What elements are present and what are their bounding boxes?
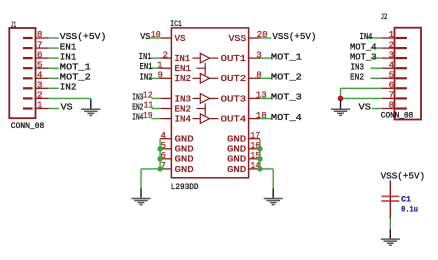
pin J1.7 — [35, 39, 49, 50]
wire net IN2 to IC1.9 — [149, 77, 160, 79]
ground symbol at J1.2 — [81, 99, 100, 115]
pin J2.5 — [382, 70, 395, 81]
label IC1 refdes — [170, 20, 182, 29]
svg-text:MOT_1: MOT_1 — [271, 51, 303, 62]
wire net IN3 to IC1.12 — [152, 97, 161, 99]
node label VS — [140, 31, 150, 42]
node label IN3 — [351, 61, 365, 72]
wire net MOT_4 to IC1.18 — [260, 118, 271, 120]
ground symbol below IC1 right — [264, 188, 283, 204]
node label IN4 — [132, 112, 143, 123]
svg-text:VS: VS — [61, 102, 74, 113]
pin J2.4 — [382, 59, 395, 70]
svg-text:VSS(+5V): VSS(+5V) — [272, 31, 316, 42]
svg-text:IN4: IN4 — [132, 112, 143, 123]
node label VSS(+5V) — [272, 31, 316, 42]
pin J1.3 — [35, 80, 49, 91]
svg-text:IN2: IN2 — [60, 82, 77, 93]
svg-text:IN2: IN2 — [175, 73, 192, 84]
node label EN2 — [350, 72, 364, 83]
pin J2.3 — [382, 49, 395, 60]
node label IN2 — [140, 71, 153, 82]
wire J2.7 to ground — [341, 97, 382, 99]
wire GND bus left of IC1 — [141, 139, 160, 189]
pin IC1.16 (GND) — [248, 140, 260, 151]
svg-text:0.1u: 0.1u — [401, 205, 418, 214]
wire net EN2 at J2.5 — [371, 77, 382, 79]
svg-text:IN2: IN2 — [140, 71, 153, 82]
node label MOT_3 — [350, 51, 377, 62]
pin IC1.5 (GND) — [160, 140, 172, 151]
wire GND bus right of IC1 — [260, 139, 273, 189]
wire C1 to ground — [389, 219, 391, 230]
wire net VS to IC1.10 — [150, 37, 160, 39]
label J1 refdes — [11, 21, 16, 30]
pin IC1.20 (VSS(+5V)) — [248, 29, 267, 40]
pin IC1.6 (GND) — [160, 150, 172, 161]
node label IN3 — [132, 91, 143, 102]
wire net IN1 to IC1.2 — [149, 57, 160, 59]
pin IC1.15 (GND) — [248, 150, 260, 161]
label J2 value CONN_08 — [381, 112, 414, 121]
svg-text:GND: GND — [227, 164, 247, 175]
svg-text:MOT_4: MOT_4 — [271, 112, 303, 123]
junction on GND bus right row 12 — [257, 156, 262, 161]
pin IC1.17 (GND) — [248, 130, 260, 141]
pin J2.8 — [382, 100, 395, 111]
node label MOT_2 — [271, 72, 302, 83]
enable line EN1 inside IC1 — [197, 63, 206, 75]
label IC1 value L293DD — [171, 183, 199, 192]
IC1 internal pin names left — [175, 33, 195, 175]
enable line EN2 inside IC1 — [197, 103, 206, 115]
capacitor C1 — [381, 196, 399, 218]
connector J2 (CONN_08) — [395, 28, 422, 120]
node label VSS(+5V) at C1 — [381, 171, 426, 182]
buffer triangle 2 inside IC1 — [193, 74, 219, 84]
svg-text:IN4: IN4 — [175, 114, 192, 125]
pin IC1.3 (MOT_1) — [248, 49, 262, 60]
wire net IN3 at J2.4 — [371, 67, 382, 69]
node label EN1 — [140, 61, 153, 72]
wire net VS at J1.1 — [49, 108, 59, 110]
svg-text:VS: VS — [175, 33, 186, 44]
IC1 internal pin names right — [221, 33, 247, 175]
wire net IN1 at J1.6 — [49, 57, 59, 59]
svg-text:VS: VS — [140, 31, 150, 42]
junction on GND bus left row 11 — [157, 146, 162, 151]
pin J1.5 — [35, 59, 49, 70]
node label VS — [359, 102, 372, 113]
node label IN1 — [139, 51, 152, 62]
svg-text:OUT1: OUT1 — [221, 53, 247, 64]
wire VSS to C1 — [389, 181, 391, 197]
wire net MOT_3 to IC1.13 — [260, 97, 271, 99]
svg-text:19: 19 — [143, 110, 153, 121]
wire net MOT_4 at J2.2 — [371, 47, 382, 49]
node label VS — [61, 102, 74, 113]
ground symbol below IC1 left — [131, 188, 150, 204]
pin J2.2 — [382, 39, 395, 50]
pin IC1.18 (MOT_4) — [248, 110, 267, 121]
pin IC1.13 (MOT_3) — [248, 90, 267, 101]
svg-text:CONN_08: CONN_08 — [381, 112, 414, 121]
junction on GND bus right row 11 — [257, 146, 262, 151]
node label VSS(+5V) — [60, 31, 107, 42]
junction on GND bus left row 13 — [157, 166, 162, 171]
pin IC1.14 (GND) — [248, 160, 260, 171]
svg-text:CONN_08: CONN_08 — [11, 122, 45, 131]
node label MOT_4 — [350, 41, 377, 52]
svg-text:MOT_3: MOT_3 — [271, 92, 302, 103]
svg-text:OUT2: OUT2 — [221, 73, 247, 84]
ground symbol below C1 — [381, 229, 400, 245]
label C1 — [401, 196, 411, 205]
svg-text:C1: C1 — [401, 196, 411, 205]
node label MOT_3 — [271, 92, 302, 103]
IC1 L293DD body — [171, 28, 248, 178]
pin J1.2 — [35, 90, 49, 101]
node label IN4 — [360, 31, 373, 42]
svg-text:GND: GND — [175, 164, 195, 175]
pin IC1.12 (IN3) — [143, 90, 172, 101]
buffer triangle 3 inside IC1 — [193, 94, 219, 104]
pin IC1.9 (IN2) — [158, 70, 172, 81]
wire net MOT_2 at J1.4 — [49, 77, 59, 79]
svg-text:MOT_2: MOT_2 — [271, 72, 302, 83]
pin J1.1 — [35, 100, 49, 111]
svg-text:2: 2 — [163, 49, 169, 60]
wire net VSS(+5V) at J1.8 — [49, 37, 59, 39]
pin IC1.1 (EN1) — [157, 59, 172, 70]
junction at J2 ground node — [338, 96, 344, 102]
node label EN2 — [132, 102, 143, 113]
svg-text:OUT3: OUT3 — [221, 93, 247, 104]
wire net IN4 at J2.1 — [367, 37, 382, 39]
pin IC1.2 (IN1) — [160, 49, 172, 60]
svg-text:J2: J2 — [381, 13, 388, 22]
wire net IN4 to IC1.19 — [152, 118, 161, 120]
svg-text:VS: VS — [359, 102, 372, 113]
node label MOT_2 — [60, 72, 91, 83]
svg-text:VSS(+5V): VSS(+5V) — [381, 171, 426, 182]
svg-text:L293DD: L293DD — [171, 183, 199, 192]
pin J1.8 — [35, 29, 49, 40]
wire J2.6 to ground — [341, 88, 382, 98]
wire net MOT_1 at J1.5 — [49, 67, 59, 69]
node label EN1 — [60, 41, 77, 52]
label C1 value 0.1u — [401, 205, 418, 214]
pin IC1.4 (GND) — [160, 130, 172, 141]
wire net EN1 to IC1.1 — [149, 67, 160, 69]
wire net EN2 to IC1.11 — [152, 108, 161, 110]
svg-text:J1: J1 — [11, 21, 16, 30]
wire net VS at J2.8 — [372, 108, 382, 110]
connector J1 (CONN_08) — [9, 28, 35, 118]
pin IC1.10 (VS) — [151, 29, 172, 40]
pin IC1.11 (EN2) — [144, 100, 172, 111]
label J2 refdes — [381, 13, 388, 22]
pin J2.1 — [382, 29, 395, 40]
buffer triangle 1 inside IC1 — [193, 53, 219, 63]
node label IN2 — [60, 82, 77, 93]
junction on GND bus right row 13 — [257, 166, 262, 171]
pin IC1.7 (GND) — [160, 160, 172, 171]
svg-text:VSS: VSS — [229, 33, 247, 44]
node label MOT_1 — [271, 51, 303, 62]
pin J2.6 — [382, 80, 395, 91]
svg-text:1: 1 — [37, 100, 43, 111]
wire net VSS(+5V) to IC1.20 — [260, 37, 271, 39]
pin IC1.19 (IN4) — [143, 110, 172, 121]
wire net MOT_2 to IC1.8 — [260, 77, 271, 79]
label J1 value CONN_08 — [11, 122, 45, 131]
pin IC1.8 (MOT_2) — [248, 70, 262, 81]
svg-text:IC1: IC1 — [170, 20, 182, 29]
junction on GND bus left row 12 — [157, 156, 162, 161]
pin J1.6 — [35, 49, 49, 60]
ground symbol at J2 pins 6-7 — [331, 99, 350, 115]
node label MOT_4 — [271, 112, 303, 123]
buffer triangle 4 inside IC1 — [193, 114, 219, 124]
svg-text:8: 8 — [389, 100, 395, 111]
wire net IN2 at J1.3 — [49, 87, 59, 89]
node label IN1 — [60, 51, 77, 62]
svg-text:EN2: EN2 — [350, 72, 364, 83]
svg-text:OUT4: OUT4 — [221, 114, 247, 125]
wire net EN1 at J1.7 — [49, 47, 59, 49]
wire net MOT_3 at J2.3 — [371, 57, 382, 59]
pin J1.4 — [35, 70, 49, 81]
wire net MOT_1 to IC1.3 — [260, 57, 271, 59]
pin J2.7 — [382, 90, 395, 101]
wire J1.2 to ground — [49, 97, 91, 99]
node label MOT_1 — [60, 61, 92, 72]
